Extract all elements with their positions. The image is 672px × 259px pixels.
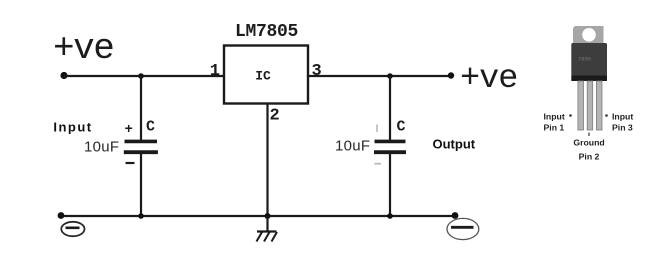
node junction cap2 bottom — [387, 213, 393, 219]
label Input Pin 3 — [612, 111, 633, 132]
label minus C1 — [126, 162, 135, 164]
value 10uF output — [335, 138, 370, 155]
capacitor C1 10uF input — [124, 141, 158, 152]
pin 3 label — [312, 62, 322, 81]
value 10uF input — [84, 139, 119, 156]
TO-220 mounting hole — [582, 28, 596, 42]
wire pin2 ground lead — [266, 103, 268, 216]
label +ve output — [460, 60, 517, 98]
capacitor C2 10uF output — [374, 141, 406, 152]
svg-text:10uF: 10uF — [84, 139, 119, 156]
node ground-rail right dot — [452, 212, 459, 219]
wire output cap bottom lead — [389, 154, 391, 217]
TO-220 body bottom strip — [571, 76, 607, 82]
TO-220 leg 1 — [578, 81, 584, 130]
svg-text:2: 2 — [270, 107, 280, 126]
TO-220 metal tab — [573, 26, 604, 45]
ground chassis symbol — [257, 216, 278, 242]
label Ground Pin 2 — [573, 138, 604, 162]
node junction cap1 bottom — [138, 213, 144, 219]
terminal negative right — [447, 218, 479, 239]
svg-text:Ground: Ground — [573, 138, 604, 148]
marker pin1 pointer dot — [569, 114, 572, 117]
svg-text:Input: Input — [612, 111, 633, 121]
svg-text:C: C — [146, 119, 155, 136]
node junction output cap — [387, 73, 393, 79]
label plus C1 — [125, 122, 133, 138]
pin 2 label — [270, 107, 280, 126]
svg-text:7805: 7805 — [578, 56, 591, 63]
label Output — [433, 137, 476, 152]
svg-text:+ve: +ve — [460, 60, 517, 98]
node input terminal dot — [60, 72, 67, 79]
label +ve input — [53, 28, 113, 69]
terminal negative left — [61, 222, 84, 236]
svg-text:LM7805: LM7805 — [235, 22, 298, 42]
node junction pin2 bottom — [265, 213, 271, 219]
TO-220 body — [571, 43, 607, 76]
svg-text:Input: Input — [53, 120, 92, 135]
wire input top rail — [64, 75, 225, 77]
pin 1 label — [210, 62, 220, 81]
label minus C2 faint — [375, 163, 382, 165]
wire output top rail — [307, 75, 451, 77]
svg-text:Input: Input — [544, 111, 565, 121]
wire input cap top lead — [140, 76, 142, 140]
svg-text:10uF: 10uF — [335, 138, 370, 155]
label plus C2 faint — [376, 125, 378, 133]
transistor package TO-220 photo — [571, 26, 607, 130]
svg-text:C: C — [397, 119, 406, 136]
label C input cap — [146, 119, 155, 136]
TO-220 leg 2 — [587, 81, 593, 130]
wire bottom ground rail — [61, 215, 455, 217]
svg-text:3: 3 — [312, 62, 322, 81]
wire output cap top lead — [389, 76, 391, 140]
node ground-rail left dot — [58, 212, 65, 219]
svg-text:+ve: +ve — [53, 28, 113, 69]
svg-text:Output: Output — [433, 137, 476, 152]
svg-text:Pin 3: Pin 3 — [612, 123, 633, 133]
marker pin3 pointer dot — [605, 114, 608, 117]
svg-text:Pin 2: Pin 2 — [579, 152, 600, 162]
marker pin2 pointer tick — [588, 133, 590, 137]
svg-text:Pin 1: Pin 1 — [544, 123, 565, 133]
label C output cap — [397, 119, 406, 136]
wire input cap bottom lead — [140, 154, 142, 217]
svg-text:1: 1 — [210, 62, 220, 81]
TO-220 leg 3 — [596, 81, 602, 130]
svg-text:IC: IC — [255, 69, 271, 84]
op-amp U1 LM7805 regulator box — [224, 22, 308, 104]
node junction input cap — [138, 73, 144, 79]
label Input — [53, 120, 92, 135]
node output terminal dot — [448, 72, 454, 78]
label Input Pin 1 — [544, 111, 565, 132]
svg-text:+: + — [125, 122, 133, 138]
